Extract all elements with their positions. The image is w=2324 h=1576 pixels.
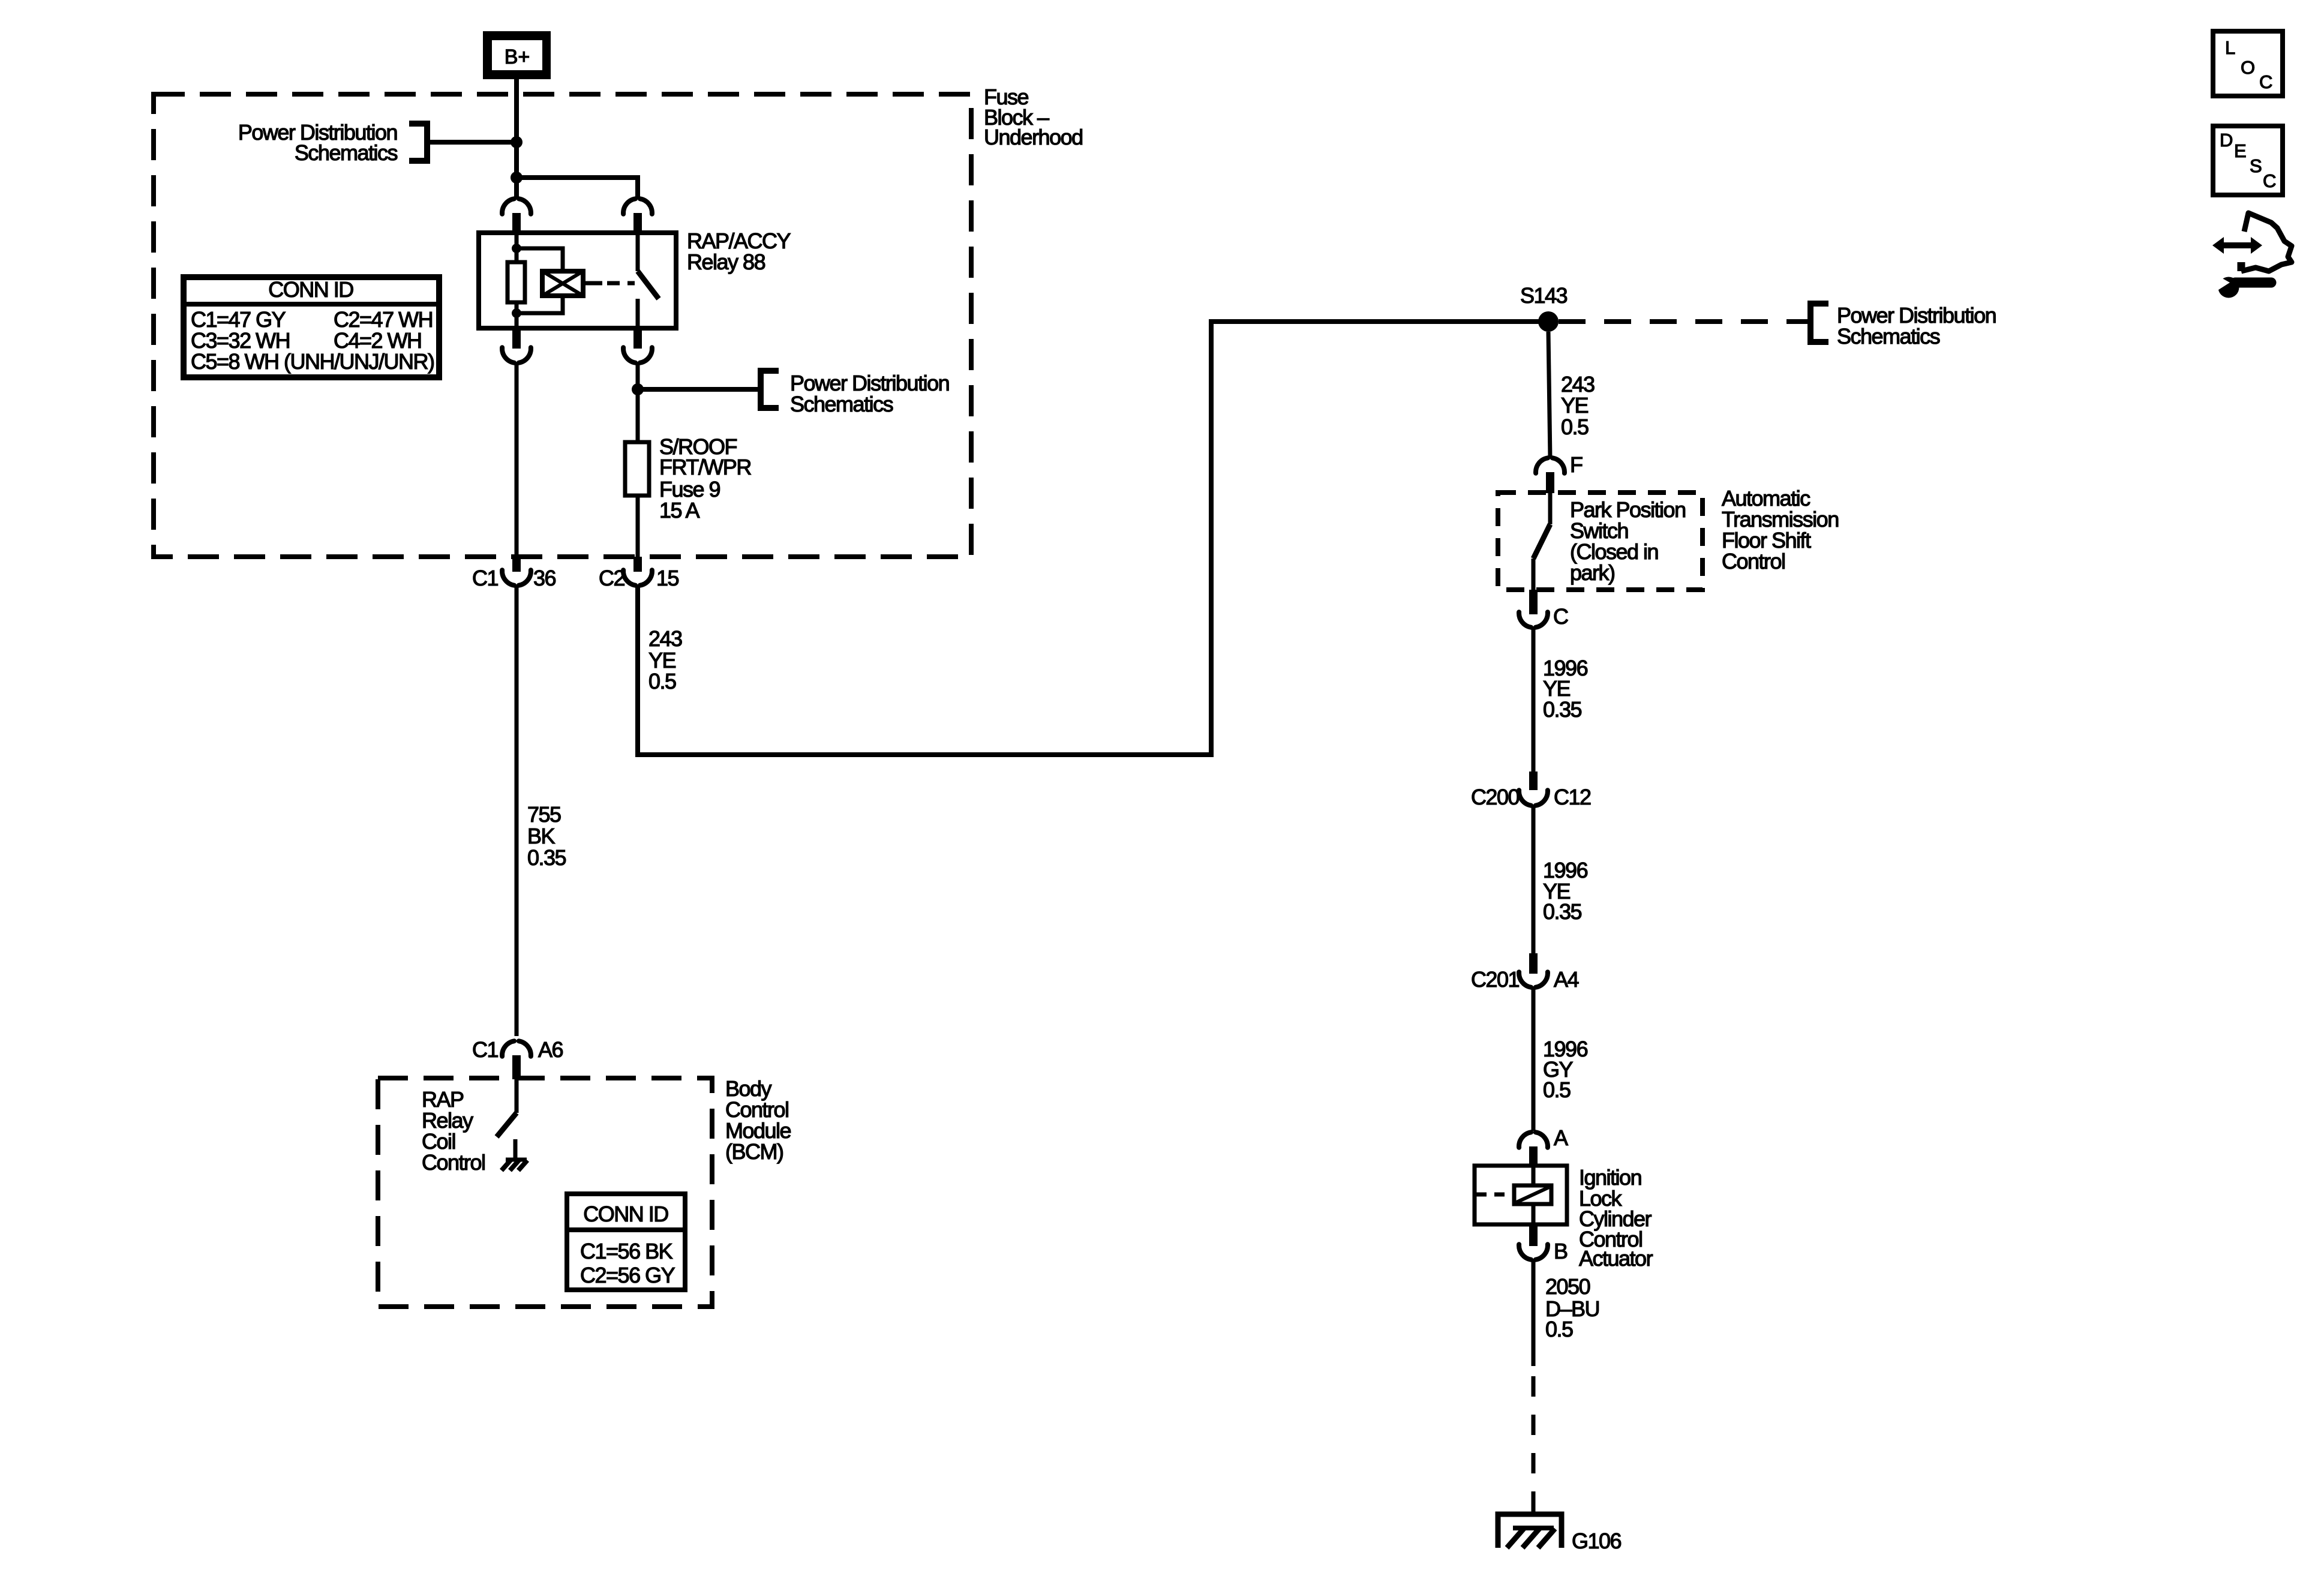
splice S143 <box>1538 311 1559 332</box>
wire to off-page bracket (right of relay) <box>638 387 758 392</box>
connector C1 pin A6 at BCM <box>502 1041 531 1056</box>
wire parallel coil branch <box>517 248 563 313</box>
wire label 755 BK 0.35 <box>527 802 566 870</box>
wire label 1996 GY 0.5 <box>1543 1037 1588 1102</box>
ground symbol in BCM <box>502 1160 527 1170</box>
svg-text:C: C <box>2263 170 2276 191</box>
ground G106 <box>1498 1514 1562 1548</box>
node: resistor bottom junction <box>512 308 521 318</box>
shift/tools icon: outline shape <box>2241 213 2292 271</box>
relay resistor <box>508 262 525 302</box>
wire label 1996 YE 0.35 (upper) <box>1543 656 1588 722</box>
shift/tools icon: wrench <box>2216 275 2271 298</box>
wire 1996 YE C to C200 <box>1532 628 1536 774</box>
svg-text:G106: G106 <box>1572 1529 1622 1553</box>
B+ battery feed terminal box <box>483 31 551 79</box>
label Power Distribution Schematics (mid) <box>790 371 949 416</box>
wire tap down to fuse <box>636 389 640 442</box>
svg-text:15: 15 <box>656 566 679 590</box>
svg-text:S: S <box>2250 155 2262 176</box>
label Power Distribution Schematics (right) <box>1837 303 1996 349</box>
svg-text:B: B <box>1554 1239 1568 1263</box>
svg-text:0.5: 0.5 <box>648 669 676 694</box>
Ignition Lock Cylinder Control Actuator box <box>1475 1166 1567 1224</box>
off-page reference bracket: Power Distribution Schematics (mid) <box>761 371 779 408</box>
svg-text:Control: Control <box>1722 549 1785 574</box>
node: relay branch tap <box>511 172 523 184</box>
connector C200 pin C12 <box>1529 772 1538 790</box>
relay switch blade <box>638 271 659 299</box>
Body Control Module dashed box <box>378 1078 712 1307</box>
wire 243 YE from C2: down, right, up to S143 <box>638 322 1548 755</box>
svg-text:C: C <box>2259 71 2272 92</box>
off-page reference bracket: Power Distribution Schematics (right) <box>1810 304 1828 342</box>
connector half: relay switch pin top (female) <box>623 199 652 214</box>
node: fuse branch tap <box>632 383 644 395</box>
wire 1996 YE C200 to C201 <box>1532 806 1536 955</box>
wire relay switch out, down via tap to fuse <box>636 363 640 391</box>
svg-text:C1=56 BK: C1=56 BK <box>580 1239 673 1263</box>
connector half: relay switch pin bottom (male) <box>633 328 642 349</box>
svg-text:CONN ID: CONN ID <box>583 1202 668 1226</box>
svg-text:Control: Control <box>422 1150 485 1175</box>
svg-text:C5=8 WH (UNH/UNJ/UNR): C5=8 WH (UNH/UNJ/UNR) <box>191 349 434 374</box>
svg-text:0.35: 0.35 <box>1543 899 1582 924</box>
connector C1 pin 36 at fuse block <box>512 557 521 572</box>
wire dashed part to ground <box>1532 1376 1536 1514</box>
fuse S/ROOF FRT/WPR Fuse 9 15 A <box>625 442 649 496</box>
connector C of park position switch <box>1529 590 1538 614</box>
actuator solenoid <box>1532 1166 1536 1185</box>
svg-text:YE: YE <box>1561 393 1589 418</box>
label RAP/ACCY Relay 88 <box>687 229 791 274</box>
node: resistor top junction <box>512 244 521 253</box>
solenoid dashed link <box>1476 1193 1512 1197</box>
svg-text:B+: B+ <box>505 46 530 68</box>
svg-text:Underhood: Underhood <box>984 125 1083 149</box>
svg-text:C12: C12 <box>1554 785 1591 809</box>
svg-text:D: D <box>2220 130 2233 151</box>
svg-text:Actuator: Actuator <box>1579 1246 1653 1271</box>
Park Position Switch dashed box <box>1498 493 1703 590</box>
wire label 2050 D-BU 0.5 <box>1545 1274 1599 1341</box>
svg-text:0.5: 0.5 <box>1543 1077 1571 1102</box>
off-page reference bracket: Power Distribution Schematics (left) <box>409 124 514 161</box>
relay coil (box with X) <box>542 271 583 296</box>
svg-text:O: O <box>2241 57 2255 78</box>
node: power distribution tap <box>511 136 523 148</box>
svg-text:36: 36 <box>533 566 556 590</box>
svg-text:15 A: 15 A <box>659 498 700 523</box>
wire label 1996 YE 0.35 (lower) <box>1543 858 1588 924</box>
label RAP Relay Coil Control <box>422 1087 485 1175</box>
connector C201 pin A4 <box>1529 953 1538 974</box>
wire 755 BK from C1 down to BCM <box>515 586 519 1036</box>
park switch blade <box>1548 493 1553 524</box>
connector C2 pin 15 at fuse block <box>633 557 642 572</box>
svg-text:0.35: 0.35 <box>1543 697 1582 722</box>
svg-text:243: 243 <box>648 626 682 651</box>
svg-text:C1: C1 <box>472 566 498 590</box>
svg-text:0.5: 0.5 <box>1561 415 1589 439</box>
svg-text:Schematics: Schematics <box>1837 324 1940 349</box>
svg-text:(BCM): (BCM) <box>725 1139 783 1164</box>
svg-text:C200: C200 <box>1471 785 1520 809</box>
shift/tools icon: double arrow <box>2212 237 2262 254</box>
wire B+ trunk down into fuse block <box>514 78 519 198</box>
LOC icon box <box>2213 31 2283 96</box>
svg-text:S143: S143 <box>1520 283 1568 308</box>
label Automatic Transmission Floor Shift Control <box>1722 486 1839 574</box>
relay coil branch wire <box>515 233 519 262</box>
relay switch <box>636 233 640 271</box>
label Body Control Module (BCM) <box>725 1076 791 1164</box>
BCM driver switch to ground <box>515 1078 519 1113</box>
coil armature linkage (dashed) <box>583 281 602 286</box>
label Power Distribution Schematics (left) <box>238 120 398 165</box>
wire fuse bottom to C2 <box>636 496 640 558</box>
wire 2050 D-BU solid part <box>1532 1260 1536 1366</box>
wire S143 down to F <box>1548 332 1550 458</box>
wire label 243 YE 0.5 (left) <box>648 626 682 694</box>
label Ignition Lock Cylinder Control Actuator <box>1579 1165 1653 1271</box>
svg-text:C: C <box>1553 604 1568 629</box>
svg-text:Schematics: Schematics <box>790 392 893 416</box>
svg-text:755: 755 <box>527 802 561 827</box>
connector A of ignition lock actuator <box>1519 1132 1548 1147</box>
wire relay coil out, down to C1 <box>515 363 519 558</box>
svg-text:0.5: 0.5 <box>1545 1317 1573 1341</box>
dashed off-page wire right of S143 <box>1559 319 1808 324</box>
DESC icon box <box>2213 126 2283 195</box>
svg-text:FRT/WPR: FRT/WPR <box>659 455 751 479</box>
connector B of ignition lock actuator <box>1529 1224 1538 1246</box>
connector F of park position switch <box>1536 458 1565 473</box>
Fuse Block - Underhood dashed outline <box>154 94 971 557</box>
svg-text:Schematics: Schematics <box>295 140 398 165</box>
svg-text:C2=56 GY: C2=56 GY <box>580 1263 675 1287</box>
svg-text:A4: A4 <box>1554 967 1579 992</box>
svg-text:CONN ID: CONN ID <box>268 277 353 302</box>
svg-text:BK: BK <box>527 824 556 848</box>
wire branch to relay switch pin <box>517 175 638 180</box>
svg-text:2050: 2050 <box>1545 1274 1590 1299</box>
svg-text:A: A <box>1554 1125 1568 1150</box>
wire resistor bottom to relay box bottom <box>515 302 519 328</box>
svg-text:park): park) <box>1570 560 1615 585</box>
svg-text:L: L <box>2225 37 2235 58</box>
svg-text:C1: C1 <box>472 1037 498 1062</box>
connector half: relay coil pin top (female) <box>502 199 531 214</box>
label Park Position Switch (Closed in park) <box>1570 497 1686 585</box>
svg-text:Relay 88: Relay 88 <box>687 250 765 274</box>
connector half: relay coil pin bottom (male) <box>512 328 521 349</box>
svg-text:F: F <box>1570 452 1583 477</box>
label S/ROOF FRT/WPR Fuse 9 15 A <box>659 434 751 523</box>
svg-text:E: E <box>2234 140 2247 161</box>
CONN ID table (BCM) <box>567 1194 685 1290</box>
wire label 243 YE 0.5 (right) <box>1561 372 1595 439</box>
RAP/ACCY Relay 88 box <box>479 233 676 328</box>
svg-text:A6: A6 <box>538 1037 563 1062</box>
wire 1996 GY C201 to A <box>1532 987 1536 1131</box>
svg-text:0.35: 0.35 <box>527 845 566 870</box>
CONN ID table (fuse block) <box>184 277 439 377</box>
svg-text:C201: C201 <box>1471 967 1520 992</box>
svg-text:C2: C2 <box>599 566 624 590</box>
label Fuse Block - Underhood <box>984 85 1083 149</box>
